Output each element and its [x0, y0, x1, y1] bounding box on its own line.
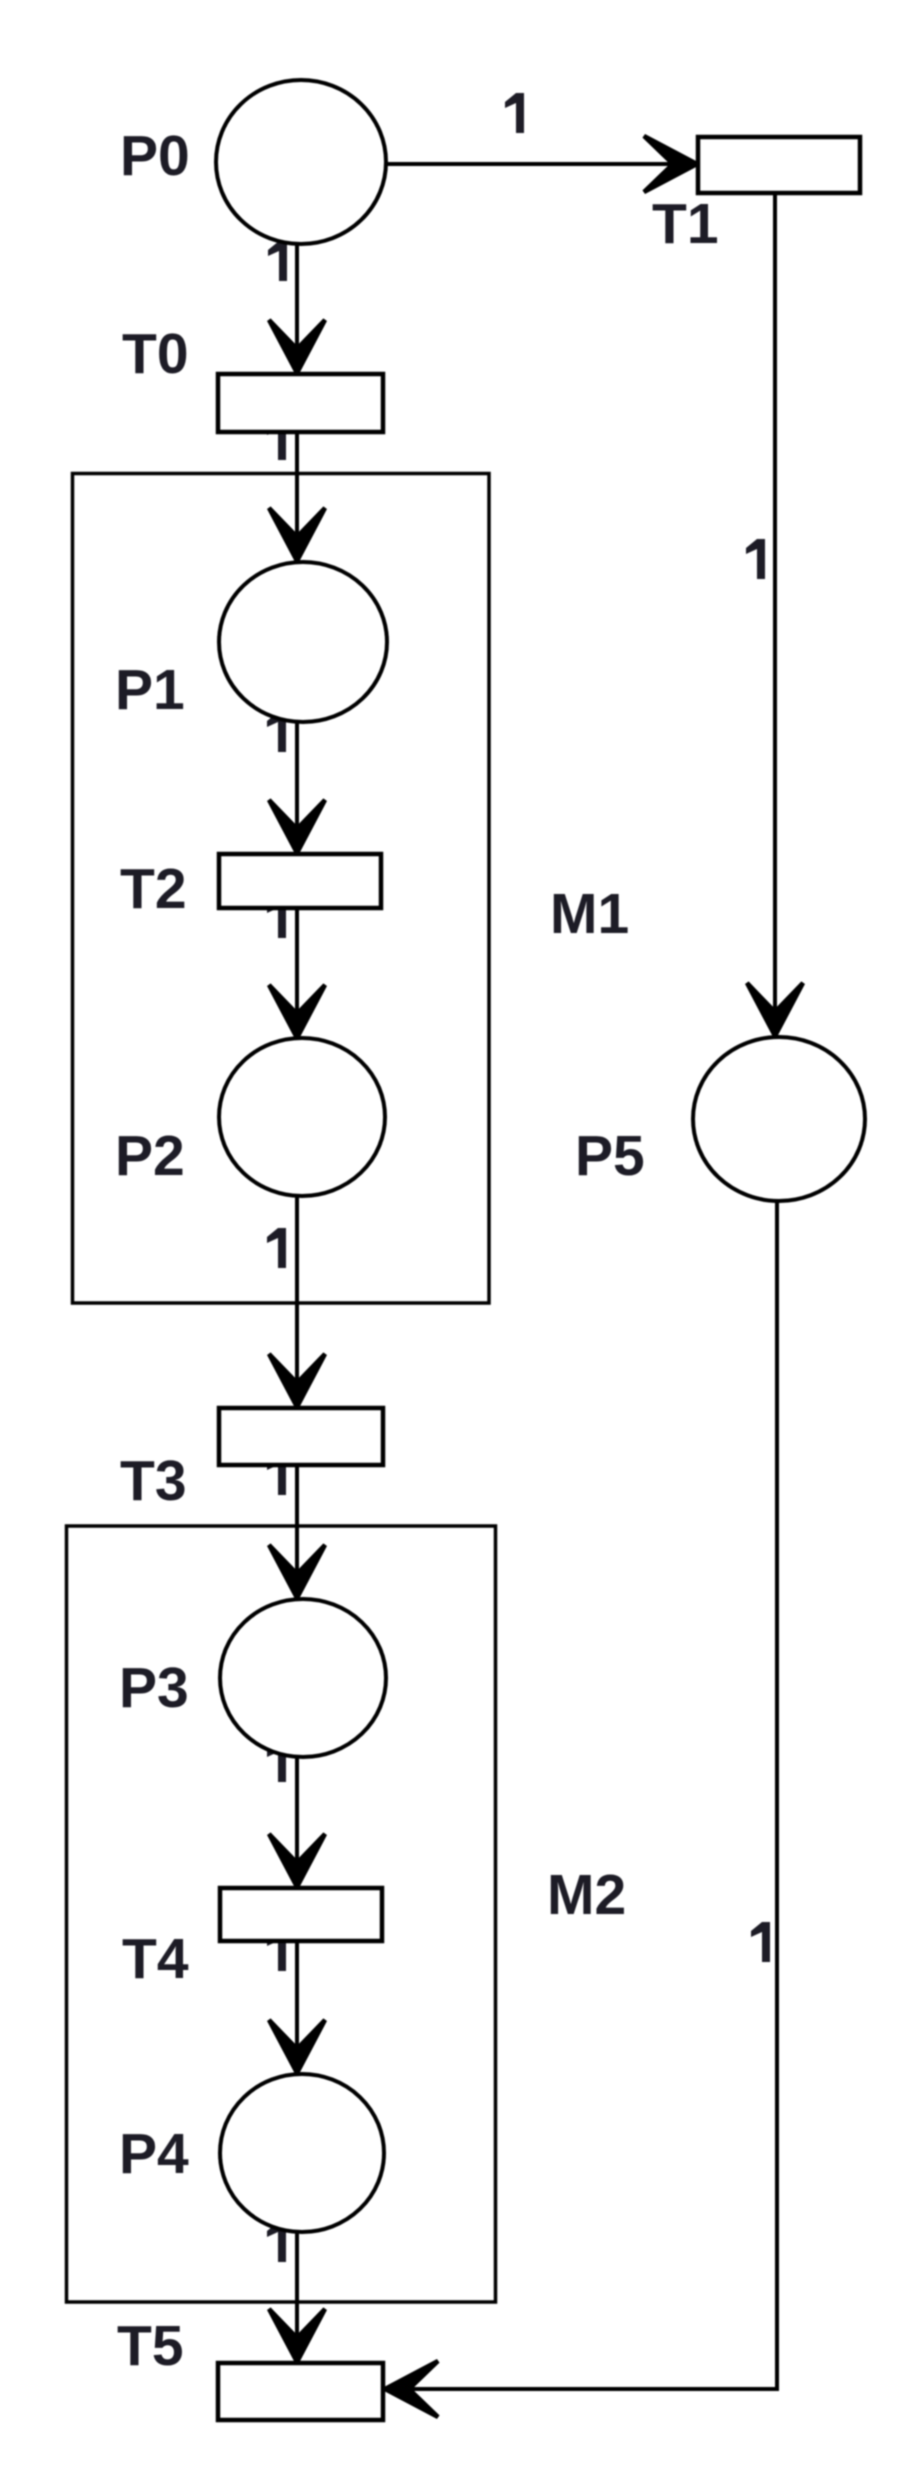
- place P1: [219, 562, 387, 722]
- place P5: [693, 1037, 865, 1201]
- svg-text:M2: M2: [547, 1863, 626, 1927]
- arrowhead into P4: [269, 2020, 325, 2073]
- arc weight 1 under T4: [267, 1931, 286, 1971]
- wire P0 to T1: [386, 162, 672, 166]
- arc weight 1 on T1-P5 arc: [746, 539, 765, 579]
- arc weight 1 under P1: [267, 712, 286, 752]
- arrowhead into T1: [644, 136, 697, 192]
- arrowhead into T5: [269, 2309, 325, 2362]
- arc weight 1 under T2: [267, 898, 286, 938]
- transition T0: [218, 374, 383, 432]
- wire T0 to P1: [295, 432, 299, 540]
- wire T1 to P5: [773, 193, 777, 1015]
- arc weight 1 under P0: [268, 241, 287, 281]
- svg-text:P4: P4: [119, 2122, 189, 2186]
- svg-text:T2: T2: [120, 857, 187, 921]
- wire T4 to P4: [295, 1941, 299, 2052]
- arrowhead into T0: [269, 320, 325, 373]
- arc weight 1 under P3: [267, 1742, 286, 1782]
- arc weight 1 on P5-T5 arc: [751, 1922, 770, 1962]
- svg-text:T4: T4: [122, 1927, 189, 1991]
- arc weight 1 under P4: [267, 2222, 286, 2262]
- svg-text:P5: P5: [575, 1124, 645, 1188]
- svg-text:T3: T3: [120, 1449, 187, 1513]
- arrowhead into P1: [269, 508, 325, 561]
- place P2: [219, 1038, 385, 1196]
- arrowhead into P3: [269, 1545, 325, 1598]
- wire T3 to P3: [295, 1465, 299, 1577]
- wire P2 to T3: [295, 1196, 299, 1386]
- arc weight 1 under T0: [267, 420, 286, 460]
- wire P3 to T4: [295, 1757, 299, 1866]
- arrowhead into P5: [747, 983, 803, 1036]
- arc weight 1 under P2: [267, 1228, 286, 1268]
- arrowhead into T2: [269, 800, 325, 853]
- arrowhead into P2: [269, 985, 325, 1038]
- wire P1 to T2: [295, 722, 299, 832]
- arrowhead into T5 right side: [385, 2361, 438, 2417]
- svg-text:T5: T5: [117, 2314, 184, 2378]
- wire P4 to T5: [295, 2232, 299, 2341]
- svg-text:P2: P2: [115, 1124, 185, 1188]
- transition T5: [218, 2363, 383, 2420]
- wire P5 to T5 elbow: [408, 1201, 777, 2389]
- wire T2 to P2: [295, 908, 299, 1017]
- transition T2: [219, 854, 381, 908]
- place P0: [216, 80, 386, 244]
- arc weight 1 on P0-T1 arc: [505, 93, 524, 133]
- transition T3: [219, 1408, 383, 1465]
- subsystem box M2: [67, 1526, 496, 2302]
- transition T4: [220, 1888, 382, 1941]
- svg-text:T1: T1: [652, 192, 719, 256]
- transition T1: [698, 137, 860, 193]
- svg-text:T0: T0: [122, 322, 189, 386]
- arrowhead into T3: [269, 1354, 325, 1407]
- place P4: [220, 2074, 384, 2232]
- place P3: [220, 1599, 386, 1757]
- svg-text:P1: P1: [115, 658, 185, 722]
- arc weight 1 under T3: [267, 1455, 286, 1495]
- subsystem box M1: [73, 474, 490, 1304]
- arrowhead into T4: [269, 1834, 325, 1887]
- svg-text:P0: P0: [120, 124, 190, 188]
- svg-text:M1: M1: [550, 882, 629, 946]
- wire P0 to T0: [295, 244, 299, 352]
- svg-text:P3: P3: [119, 1656, 189, 1720]
